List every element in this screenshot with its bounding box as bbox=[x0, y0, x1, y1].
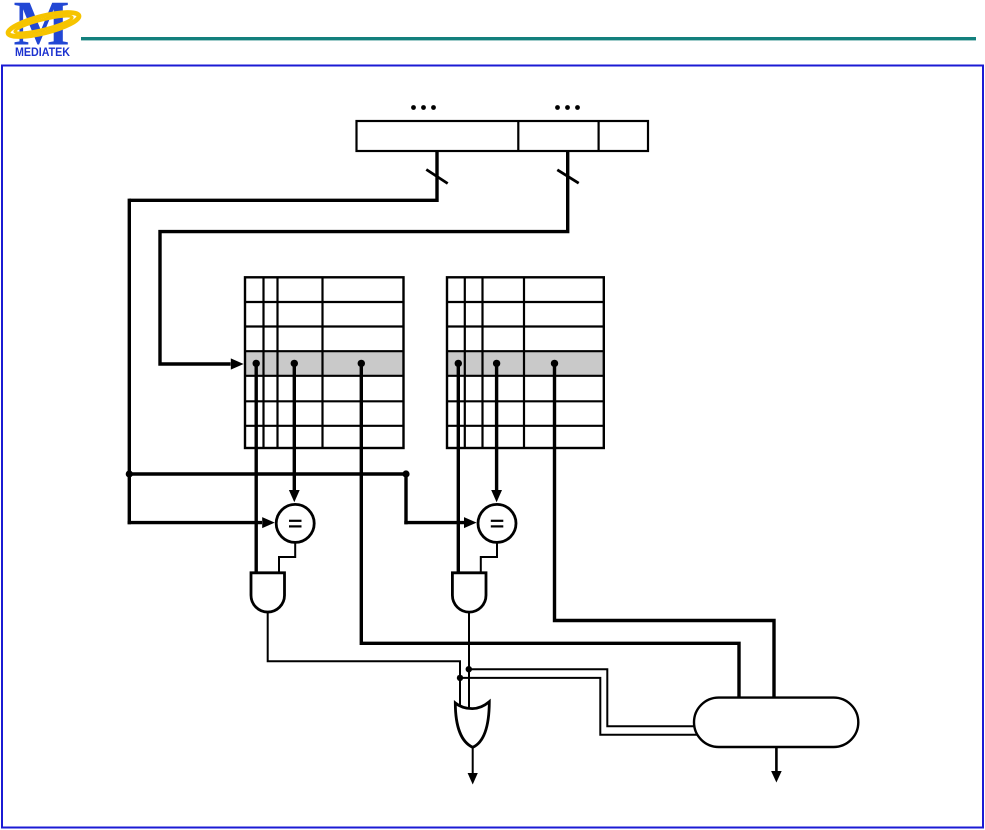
svg-text:MEDIATEK: MEDIATEK bbox=[15, 45, 70, 59]
